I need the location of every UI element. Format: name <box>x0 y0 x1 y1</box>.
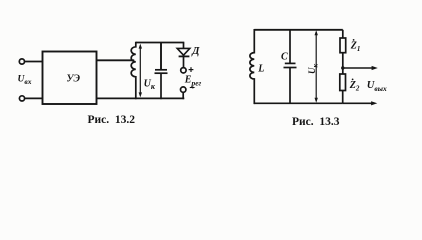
impedance Z2 box <box>340 74 346 91</box>
output bottom arrow <box>343 101 378 105</box>
output tap arrow (middle) <box>343 66 378 70</box>
capacitor C <box>284 30 297 104</box>
svg-text:C: C <box>281 52 288 63</box>
amplifier block УЭ <box>43 52 97 105</box>
label Z2 <box>349 79 360 93</box>
voltage arrow Uк (double-headed) <box>139 44 142 98</box>
terminal - of Eрег <box>181 87 186 92</box>
wire top input <box>25 61 43 63</box>
small polarity arrow <box>190 86 196 88</box>
wire terminal to bottom rail <box>182 92 184 99</box>
capacitor 13.2 <box>155 43 168 100</box>
top rail 13.3 <box>254 29 342 31</box>
terminal + of Eрег <box>181 68 186 73</box>
inductor L <box>250 29 254 104</box>
svg-text:Рис. 13.3: Рис. 13.3 <box>292 116 340 128</box>
input terminal top <box>19 59 24 64</box>
svg-text:Д: Д <box>191 46 200 57</box>
impedance Z1 box <box>340 38 346 53</box>
wire top rail 13.2 <box>136 42 185 44</box>
plus sign <box>189 67 194 72</box>
svg-text:L: L <box>257 63 264 74</box>
bottom rail 13.3 <box>254 102 342 104</box>
svg-text:Рис. 13.2: Рис. 13.2 <box>88 114 136 126</box>
wire bottom rail 13.2 <box>97 97 185 99</box>
right branch top lead <box>342 30 344 38</box>
input terminal bottom <box>19 96 24 101</box>
wire tap from УЭ to coil <box>97 59 135 61</box>
label Z1 <box>350 39 361 53</box>
junction node <box>341 66 344 69</box>
wire Z1 to junction <box>342 53 344 74</box>
wire bottom input <box>25 97 43 99</box>
voltage arrow Uк (double-headed) <box>315 30 318 102</box>
right branch wire down to diode <box>183 43 185 49</box>
svg-text:Uвх: Uвх <box>18 75 32 87</box>
inductor (tapped coil) <box>131 42 136 99</box>
svg-text:УЭ: УЭ <box>67 74 81 85</box>
wire Z2 to bottom rail <box>342 91 344 104</box>
diode Д <box>177 48 190 67</box>
